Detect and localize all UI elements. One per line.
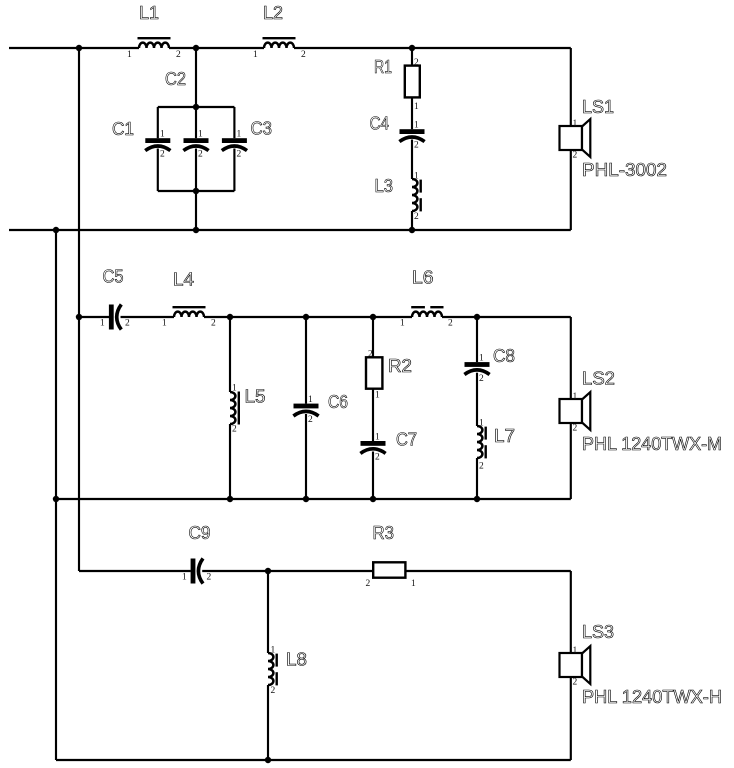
svg-text:2: 2 — [573, 678, 578, 688]
svg-text:1: 1 — [162, 319, 167, 329]
svg-text:L7: L7 — [494, 426, 515, 446]
wire top rail from L2 to LS1 — [294, 47, 571, 49]
svg-text:C8: C8 — [493, 346, 515, 366]
svg-text:2: 2 — [366, 579, 371, 589]
inductor L6 core bar — [411, 306, 425, 308]
node C2 bottom — [193, 227, 199, 233]
wire C3 leg lower — [233, 149, 235, 192]
inductor L3 core bar — [420, 180, 422, 193]
wire C2 leg upper — [195, 107, 197, 138]
inductor L1 core bar — [138, 37, 171, 39]
svg-text:2: 2 — [211, 319, 216, 329]
capacitor C3 — [222, 138, 247, 143]
node C7 bottom — [370, 496, 376, 502]
svg-text:L5: L5 — [245, 387, 266, 407]
speaker LS3 — [560, 653, 583, 677]
svg-text:2: 2 — [160, 150, 165, 160]
wire midrange input from tap to C5 — [79, 316, 109, 318]
node L8 bottom — [265, 757, 271, 763]
wire LS1 branch vertical — [570, 48, 572, 230]
capacitor C6 — [294, 404, 319, 409]
inductor L4 coil — [174, 312, 204, 317]
wire left vertical feed to mid/high — [78, 48, 80, 571]
node R2 top — [370, 314, 376, 320]
wire C2 leg lower — [195, 149, 197, 192]
svg-text:2: 2 — [573, 424, 578, 434]
wire L3 to return rail — [411, 211, 413, 230]
wire midrange input L6 to LS2 — [442, 316, 571, 318]
wire left return vertical — [55, 230, 57, 760]
svg-text:2: 2 — [414, 58, 419, 68]
svg-text:1: 1 — [237, 130, 242, 140]
wire tweeter input to C9 — [79, 570, 191, 572]
svg-text:C3: C3 — [251, 119, 273, 139]
svg-text:1: 1 — [414, 172, 419, 182]
svg-text:1: 1 — [573, 119, 578, 129]
wire R1 branch upper — [411, 48, 413, 129]
wire L5 branch upper — [229, 317, 231, 392]
svg-text:L4: L4 — [173, 270, 194, 290]
svg-text:2: 2 — [301, 50, 306, 60]
svg-text:C2: C2 — [165, 69, 186, 89]
svg-text:2: 2 — [414, 141, 419, 151]
capacitor C2 — [184, 138, 209, 143]
capacitor C9 — [191, 559, 196, 584]
svg-text:1: 1 — [271, 646, 276, 656]
resistor R3 — [373, 562, 405, 577]
capacitor C7 — [361, 441, 386, 446]
svg-text:2: 2 — [479, 374, 484, 384]
inductor L2 coil — [264, 43, 294, 48]
inductor L1 coil — [139, 43, 169, 48]
svg-text:C1: C1 — [112, 119, 134, 139]
node L7 bottom — [474, 496, 480, 502]
node C6 top — [303, 314, 309, 320]
svg-text:C4: C4 — [370, 114, 390, 134]
svg-text:1: 1 — [160, 130, 165, 140]
node C6 bottom — [303, 496, 309, 502]
svg-text:1: 1 — [375, 433, 380, 443]
node L8 top — [265, 568, 271, 574]
svg-text:PHL 1240TWX-M: PHL 1240TWX-M — [582, 434, 722, 454]
capacitor C5 — [109, 305, 114, 330]
svg-text:2: 2 — [448, 319, 453, 329]
node C8 top — [474, 314, 480, 320]
svg-text:1: 1 — [127, 50, 132, 60]
svg-text:LS3: LS3 — [582, 622, 614, 642]
svg-text:C6: C6 — [328, 392, 348, 412]
wire C3 leg upper — [233, 107, 235, 138]
svg-text:L2: L2 — [263, 3, 283, 23]
svg-text:2: 2 — [237, 150, 242, 160]
svg-text:L3: L3 — [375, 176, 394, 196]
wire woofer return rail — [9, 229, 571, 231]
capacitor C8 — [465, 362, 490, 367]
svg-text:LS2: LS2 — [582, 369, 615, 389]
wire C8 branch upper — [476, 317, 478, 362]
svg-text:L1: L1 — [139, 3, 159, 23]
svg-text:C7: C7 — [396, 430, 417, 450]
wire C1 leg lower — [157, 149, 159, 192]
svg-text:1: 1 — [232, 384, 237, 394]
inductor L7 coil — [477, 426, 482, 458]
node R1 top — [409, 45, 415, 51]
node cap bank bottom rail — [158, 190, 235, 192]
svg-text:L6: L6 — [412, 268, 434, 288]
inductor L8 core bar — [276, 654, 278, 667]
inductor L5 core bar — [238, 392, 240, 425]
node mid input tap — [76, 314, 82, 320]
wire midrange bottom rail — [56, 498, 571, 500]
wire C7 branch lower — [372, 452, 374, 500]
inductor L7 core bar — [485, 427, 487, 440]
inductor L2 core bar — [263, 37, 296, 39]
svg-text:2: 2 — [573, 151, 578, 161]
wire C2 branch upper — [195, 48, 197, 107]
wire midrange input L4 to L6 — [204, 316, 412, 318]
svg-text:1: 1 — [308, 395, 313, 405]
svg-text:1: 1 — [100, 319, 105, 329]
node cap bank bottom — [193, 188, 199, 194]
node cap bank top — [193, 104, 199, 110]
svg-text:R2: R2 — [388, 356, 412, 376]
node cap bank top rail — [158, 106, 235, 108]
svg-text:2: 2 — [479, 462, 484, 472]
svg-text:1: 1 — [479, 354, 484, 364]
wire C1 leg upper — [157, 107, 159, 138]
svg-text:2: 2 — [375, 453, 380, 463]
svg-text:2: 2 — [271, 686, 276, 696]
resistor R1 — [405, 66, 420, 98]
svg-text:2: 2 — [308, 415, 313, 425]
wire top positive rail — [9, 47, 139, 49]
svg-text:1: 1 — [479, 419, 484, 429]
node L3 bottom — [409, 227, 415, 233]
svg-text:1: 1 — [414, 102, 419, 112]
wire R2-C7 branch upper — [372, 317, 374, 441]
svg-text:2: 2 — [232, 425, 237, 435]
wire tweeter input C9 to LS3 — [202, 570, 571, 572]
inductor L5 coil — [230, 392, 235, 424]
wire L8 branch upper — [267, 571, 269, 653]
wire C2 branch lower — [195, 191, 197, 230]
svg-text:2: 2 — [176, 50, 181, 60]
svg-text:1: 1 — [253, 50, 258, 60]
resistor R2 — [366, 357, 382, 388]
wire C6 branch lower — [305, 414, 307, 499]
svg-text:R1: R1 — [374, 57, 392, 77]
svg-text:2: 2 — [125, 319, 130, 329]
node return tap — [53, 227, 59, 233]
svg-text:2: 2 — [368, 350, 373, 360]
node mid return tap — [53, 496, 59, 502]
wire L5 branch lower — [229, 424, 231, 499]
wire L8 branch lower — [267, 685, 269, 760]
svg-text:PHL-3002: PHL-3002 — [582, 160, 667, 180]
node top rail tap — [76, 45, 82, 51]
inductor L4 core bar — [173, 306, 206, 308]
wire midrange input C5 to L4 — [121, 316, 175, 318]
wire top rail between L1 and L2 — [169, 47, 264, 49]
svg-text:1: 1 — [411, 579, 416, 589]
node C2 top — [193, 45, 199, 51]
svg-text:C5: C5 — [103, 267, 124, 287]
wire LS3 branch vertical — [570, 571, 572, 760]
capacitor C1 — [145, 138, 170, 143]
inductor L8 coil — [268, 653, 273, 685]
inductor L6 coil — [412, 312, 442, 317]
svg-text:1: 1 — [573, 392, 578, 402]
wire C8 to L7 — [476, 373, 478, 426]
wire C4 to L3 — [411, 140, 413, 180]
speaker LS2 — [560, 399, 583, 423]
svg-text:1: 1 — [414, 121, 419, 131]
svg-text:1: 1 — [375, 391, 380, 401]
wire C6 branch upper — [305, 317, 307, 404]
svg-text:2: 2 — [414, 212, 419, 222]
svg-text:2: 2 — [198, 150, 203, 160]
svg-text:1: 1 — [573, 646, 578, 656]
svg-text:2: 2 — [207, 573, 212, 583]
svg-text:C9: C9 — [189, 523, 211, 543]
wire LS2 branch vertical — [570, 317, 572, 499]
svg-text:1: 1 — [400, 319, 405, 329]
svg-text:LS1: LS1 — [582, 97, 614, 117]
svg-text:PHL 1240TWX-H: PHL 1240TWX-H — [582, 687, 722, 707]
wire tweeter bottom rail — [56, 759, 571, 761]
speaker LS1 — [560, 126, 583, 150]
node L5 top — [227, 314, 233, 320]
capacitor C4 — [400, 129, 425, 134]
svg-text:1: 1 — [198, 130, 203, 140]
node L5 bottom — [227, 496, 233, 502]
svg-text:1: 1 — [182, 573, 187, 583]
svg-text:R3: R3 — [373, 523, 395, 543]
wire L7 branch lower — [476, 458, 478, 499]
svg-text:L8: L8 — [286, 650, 307, 670]
inductor L3 coil — [412, 179, 417, 211]
